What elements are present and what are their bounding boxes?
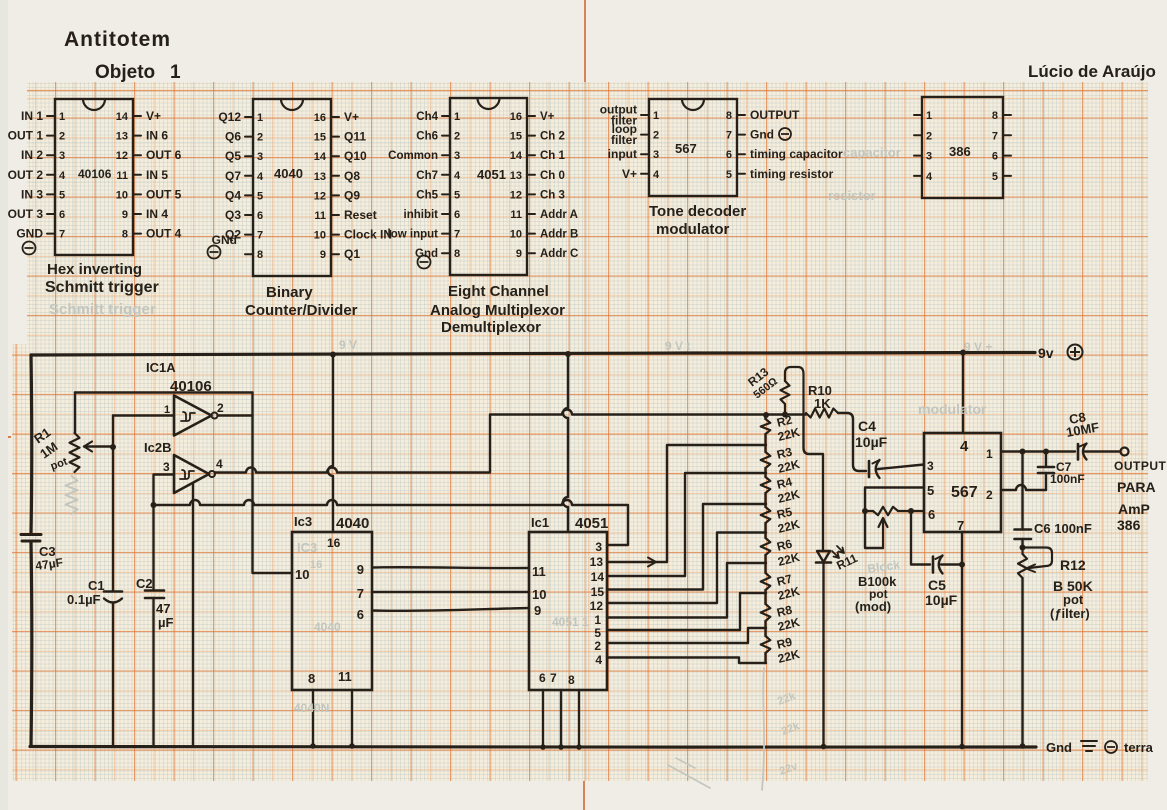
wire IC1 pin15 to ladder tap3 [607, 504, 766, 590]
svg-text:4: 4 [926, 171, 933, 183]
svg-text:1K: 1K [814, 396, 831, 411]
svg-text:2: 2 [217, 401, 224, 415]
wire ladder segment above R6 [764, 523, 766, 538]
svg-text:AmP: AmP [1118, 501, 1150, 517]
ghost caption schmitt trigger [49, 301, 156, 318]
wire R1 top lead [74, 393, 76, 434]
svg-text:10: 10 [295, 567, 309, 582]
svg-text:8: 8 [726, 110, 732, 122]
svg-text:timing resistor: timing resistor [750, 167, 834, 181]
svg-text:timing capacitor: timing capacitor [750, 147, 843, 161]
svg-text:100nF: 100nF [1050, 472, 1085, 486]
svg-text:V+: V+ [540, 111, 555, 123]
wire 9V power bus [31, 353, 1035, 356]
svg-text:4: 4 [59, 170, 66, 182]
svg-text:Binary: Binary [266, 284, 313, 301]
label IC2B [144, 440, 171, 455]
capacitor C3 47uF on left bus [21, 535, 41, 542]
label R4 22K [775, 475, 801, 506]
label R3 22K [775, 445, 801, 476]
wire inverter2 output pin4 net to ladder top [215, 410, 766, 473]
label IC3 4040 [294, 514, 369, 532]
svg-text:13: 13 [510, 170, 522, 182]
pin number 7 of U8 [957, 518, 964, 533]
svg-text:6: 6 [726, 149, 732, 161]
capacitor C6 100nF [1015, 452, 1032, 548]
svg-text:386: 386 [949, 144, 971, 159]
svg-text:6: 6 [59, 209, 65, 221]
resistor R3 22K [761, 452, 771, 468]
svg-text:OUT 3: OUT 3 [8, 207, 44, 221]
svg-text:4040N: 4040N [294, 701, 329, 715]
wire inverter1 input pin1 [113, 414, 174, 416]
wire IC3 pin8 to ground [310, 690, 316, 749]
svg-text:12: 12 [590, 599, 604, 613]
ground symbol under U1 GND pin [23, 242, 36, 255]
wire IC1 pin1 to ladder tap5 [607, 563, 766, 618]
svg-text:Ch 1: Ch 1 [540, 150, 566, 162]
svg-text:10µF: 10µF [925, 592, 958, 608]
wire ladder segment above R8 [764, 590, 766, 604]
wire R13 top loop over to R10 left [785, 367, 804, 414]
svg-text:6: 6 [928, 507, 935, 522]
svg-text:µF: µF [158, 615, 173, 630]
svg-text:8: 8 [257, 249, 263, 261]
resistor R11 100k pot [865, 507, 924, 515]
wire ladder segment above R3 [764, 434, 766, 452]
svg-text:Tone decoder: Tone decoder [649, 203, 746, 220]
svg-text:IN 6: IN 6 [146, 129, 168, 143]
pin number 4 of U8 [960, 438, 969, 455]
wire R1 wiper to node [84, 442, 113, 452]
svg-text:15: 15 [591, 585, 605, 599]
svg-text:4040: 4040 [314, 620, 341, 634]
svg-text:modulator: modulator [656, 221, 729, 238]
ghost text 4040 inside box [314, 620, 341, 634]
IC U3 pinout 4051 analog multiplexor [388, 98, 579, 275]
svg-text:6: 6 [992, 151, 998, 163]
pin number 6 of U8 [928, 507, 935, 522]
svg-text:Q3: Q3 [225, 208, 241, 222]
resistor R10 1K [806, 409, 838, 418]
label R10 1K [808, 383, 832, 411]
svg-text:2: 2 [653, 130, 659, 142]
svg-text:Ch 2: Ch 2 [540, 131, 565, 143]
svg-text:Gnd: Gnd [1046, 740, 1072, 755]
label R7 22K [775, 572, 801, 603]
svg-text:inhibit: inhibit [404, 209, 439, 221]
wire branch to LED [804, 414, 824, 551]
svg-text:Schmitt trigger: Schmitt trigger [45, 279, 159, 296]
node dot 9V at x333 [330, 352, 336, 358]
pin number 2 of IC1 [594, 639, 601, 653]
output terminal circle [1121, 448, 1129, 456]
node dot C2 junction [151, 502, 157, 508]
svg-text:GND: GND [16, 227, 43, 241]
svg-text:7: 7 [550, 671, 557, 685]
capacitor C7 100nF [1038, 452, 1054, 491]
pin number 3 of U8 [927, 459, 934, 473]
svg-text:15: 15 [314, 132, 326, 144]
svg-text:4: 4 [257, 171, 264, 183]
pin number 11 of IC1 [532, 564, 546, 579]
node dot C7 branch [1043, 449, 1049, 455]
label R8 22K [775, 603, 801, 634]
ghost block text near R11 [866, 558, 901, 576]
svg-text:Ic2B: Ic2B [144, 440, 171, 455]
svg-text:Ic3: Ic3 [294, 514, 312, 529]
svg-text:9 V: 9 V [339, 338, 357, 352]
svg-text:Q8: Q8 [344, 169, 360, 183]
svg-text:OUTPUT: OUTPUT [1114, 459, 1167, 473]
svg-text:5: 5 [927, 483, 934, 498]
svg-text:567: 567 [951, 484, 978, 501]
svg-text:11: 11 [510, 209, 522, 221]
label C3 47uF [34, 544, 63, 573]
svg-text:Eight Channel: Eight Channel [448, 283, 549, 300]
IC U6 4040 counter box [292, 532, 372, 690]
svg-text:12: 12 [314, 190, 326, 202]
svg-text:V+: V+ [344, 110, 359, 124]
ghost text modulator [918, 401, 987, 417]
svg-text:Q12: Q12 [218, 110, 241, 124]
svg-text:10: 10 [532, 587, 546, 602]
svg-text:IC1A: IC1A [146, 360, 176, 375]
wire pin3 net across to IC1 4051 pin3 [154, 500, 629, 545]
svg-text:V+: V+ [622, 167, 637, 181]
wire ladder segment above R2 [764, 415, 766, 420]
svg-text:11: 11 [314, 210, 326, 222]
label IC1A [146, 360, 176, 375]
resistor R13 560ohm [781, 381, 790, 415]
svg-text:1: 1 [454, 111, 460, 123]
wire IC1 pin6 to ground [540, 690, 546, 750]
svg-text:OUT 2: OUT 2 [8, 168, 44, 182]
label 9V plus [1038, 345, 1083, 362]
svg-text:IN 2: IN 2 [21, 148, 43, 162]
pin number 4 of IC2B [216, 457, 223, 471]
wire 567 pin2 to C7 [1001, 485, 1046, 490]
svg-text:OUTPUT: OUTPUT [750, 108, 800, 122]
svg-text:1: 1 [170, 62, 181, 83]
svg-text:Demultiplexor: Demultiplexor [441, 319, 541, 336]
wire IC3 pin11 to ground [349, 690, 355, 749]
svg-text:4040: 4040 [274, 166, 303, 181]
svg-text:40106: 40106 [170, 378, 212, 395]
svg-text:8: 8 [992, 110, 998, 122]
node dot C6 branch [1020, 449, 1026, 455]
resistor R1 1M pot [70, 433, 80, 472]
ghost diagonal strokes bottom [668, 758, 710, 788]
pin number 10 of IC3 [295, 567, 309, 582]
label C5 10uF [925, 577, 958, 608]
svg-text:filter: filter [611, 133, 637, 147]
svg-text:9 V +: 9 V + [964, 340, 992, 354]
svg-text:4051: 4051 [477, 167, 506, 182]
wire 567 pin7 to ground [959, 532, 965, 749]
svg-text:10: 10 [314, 230, 326, 242]
pin number 7 of IC1 bottom [550, 671, 557, 685]
ground symbol next to U4 Gnd label [779, 128, 791, 140]
IC U2 pinout 4040 binary counter [218, 99, 392, 276]
svg-text:3: 3 [926, 151, 932, 163]
wire IC3 pin7 to IC1 pin10 [372, 591, 529, 593]
label R11 B100k pot mod [834, 551, 897, 614]
svg-text:16: 16 [314, 112, 326, 124]
svg-text:11: 11 [532, 564, 546, 579]
label C6 100nF [1034, 521, 1092, 536]
svg-text:22k: 22k [776, 690, 798, 708]
svg-text:Schmitt trigger: Schmitt trigger [49, 301, 156, 318]
svg-text:5: 5 [59, 189, 65, 201]
svg-text:40106: 40106 [78, 167, 112, 181]
ghost squiggle below ladder [762, 668, 764, 790]
svg-text:1: 1 [257, 112, 263, 124]
ghost label 9V mid [665, 339, 690, 353]
svg-text:14: 14 [116, 111, 129, 123]
wire ground bus [30, 745, 1036, 749]
node dot ladder top [763, 412, 769, 418]
wire 9V to IC3 pin16 [328, 355, 333, 533]
svg-text:7: 7 [454, 229, 460, 241]
svg-text:8: 8 [308, 671, 315, 686]
node dot wiper junction [110, 444, 116, 450]
ghost text capacitor [843, 145, 901, 160]
svg-text:Ic1: Ic1 [531, 515, 549, 530]
wire inverter1 output [218, 414, 253, 416]
svg-text:2: 2 [986, 488, 993, 502]
svg-text:4040: 4040 [336, 515, 369, 532]
node dot R13 bottom [782, 412, 788, 418]
inverter U2B triangle [174, 455, 215, 493]
IC U7 4051 multiplexor box [529, 532, 607, 690]
svg-text:Ch 0: Ch 0 [540, 170, 565, 182]
wire 9V to 567 pin4 [962, 353, 964, 434]
svg-text:modulator: modulator [918, 401, 987, 417]
resistor R8 22K [761, 604, 771, 621]
wire 9V to IC1 pin16 [563, 354, 568, 532]
ghost erased zigzag under R1 [66, 476, 78, 514]
svg-text:4: 4 [595, 653, 602, 667]
svg-text:3: 3 [257, 151, 263, 163]
pin number 9 of IC1 [534, 603, 541, 618]
svg-text:Q6: Q6 [225, 130, 241, 144]
title Antitotem [64, 28, 171, 51]
svg-text:Addr C: Addr C [540, 248, 578, 260]
svg-text:10: 10 [116, 189, 128, 201]
pin number 15 of IC1 [591, 585, 605, 599]
pin number 7 of IC3 [357, 586, 364, 601]
svg-text:5: 5 [594, 626, 601, 640]
wire left vertical bus lower [29, 542, 33, 746]
svg-text:C6 100nF: C6 100nF [1034, 521, 1092, 536]
svg-text:16: 16 [310, 559, 322, 571]
pin number 6 of IC3 [357, 607, 364, 622]
svg-text:4: 4 [216, 457, 223, 471]
svg-text:1: 1 [653, 110, 659, 122]
svg-text:5: 5 [726, 169, 732, 181]
svg-text:13: 13 [590, 555, 604, 569]
svg-text:OUT 5: OUT 5 [146, 187, 182, 201]
resistor R6 22K [761, 538, 771, 555]
wire left vertical bus upper [29, 355, 33, 533]
pin number 11 of IC3 [338, 669, 352, 684]
resistor R12 50k pot [1018, 548, 1027, 579]
svg-text:3: 3 [59, 150, 65, 162]
pin number 3 of IC1 [595, 540, 602, 554]
wire C5 branch from pin6 node [911, 511, 930, 565]
capacitor C4 10uF polarized [869, 460, 924, 478]
svg-text:7: 7 [59, 229, 65, 241]
svg-text:Ch 3: Ch 3 [540, 189, 565, 201]
label C8 10MF [1065, 409, 1100, 440]
svg-text:4051 1: 4051 1 [552, 615, 589, 629]
wire R10 right to C4 [838, 413, 866, 471]
svg-text:16: 16 [510, 111, 522, 123]
svg-text:IC3: IC3 [297, 540, 317, 555]
svg-text:Gnd: Gnd [750, 128, 774, 142]
pin number 5 of U8 [927, 483, 934, 498]
svg-text:7: 7 [257, 230, 263, 242]
svg-text:C5: C5 [928, 577, 946, 593]
svg-text:Ch7: Ch7 [416, 170, 438, 182]
svg-text:pot: pot [1063, 592, 1084, 607]
svg-text:Q10: Q10 [344, 149, 367, 163]
svg-text:input: input [608, 147, 637, 161]
svg-text:8: 8 [122, 229, 128, 241]
svg-text:9: 9 [357, 562, 364, 577]
svg-text:6: 6 [454, 209, 460, 221]
svg-text:terra: terra [1124, 740, 1154, 755]
wire IC1 pin13 to ladder tap1 [607, 445, 766, 567]
capacitor C1 0.1uF polarized [104, 592, 122, 747]
resistor R4 22K [761, 477, 771, 493]
wire IC3 pin9 to IC1 pin11 [372, 566, 529, 569]
ghost 22k marks [776, 690, 802, 778]
svg-text:Ch6: Ch6 [416, 131, 438, 143]
label R6 22K [775, 537, 801, 569]
diode D1 LED indicator [816, 546, 844, 563]
IC U8 567 box [924, 433, 1001, 532]
pin number 4 of IC1 [595, 653, 602, 667]
ghost text 4051 inside box [552, 615, 589, 629]
svg-text:Common: Common [388, 150, 438, 162]
svg-text:Analog Multiplexor: Analog Multiplexor [430, 302, 565, 319]
ground symbol under U3 GND pin [418, 256, 431, 269]
svg-text:2: 2 [257, 132, 263, 144]
svg-text:8: 8 [454, 248, 460, 260]
svg-text:Q5: Q5 [225, 149, 241, 163]
label R1 1M pot [31, 425, 69, 473]
svg-text:capacitor: capacitor [843, 145, 901, 160]
wire IC1 pin7 to ground [558, 690, 564, 750]
svg-text:Clock IN: Clock IN [344, 228, 392, 242]
svg-text:47µF: 47µF [34, 555, 63, 573]
svg-text:4: 4 [454, 170, 461, 182]
label Gnd terra with earth and minus symbols [1046, 740, 1154, 755]
svg-text:3: 3 [927, 459, 934, 473]
wiper loop of R12 [1023, 548, 1053, 573]
label C1 0.1uF [67, 578, 105, 607]
pin number 2 of IC1A [217, 401, 224, 415]
svg-text:10µF: 10µF [855, 434, 888, 450]
capacitor C2 47uF [145, 505, 164, 746]
svg-text:1: 1 [926, 110, 932, 122]
svg-text:11: 11 [116, 170, 128, 182]
svg-text:Q7: Q7 [225, 169, 241, 183]
wiper arrow of R11 [879, 518, 888, 548]
inverter U1A triangle [174, 396, 218, 436]
wire ladder segment above R9 [764, 621, 766, 636]
svg-text:1: 1 [59, 111, 65, 123]
pin number 1 of IC1A [164, 404, 170, 416]
svg-text:(ƒilter): (ƒilter) [1050, 606, 1090, 621]
svg-text:13: 13 [116, 131, 128, 143]
svg-text:22v: 22v [778, 760, 800, 778]
svg-text:C4: C4 [858, 418, 876, 434]
svg-text:9: 9 [534, 603, 541, 618]
svg-text:5: 5 [257, 190, 263, 202]
svg-text:7: 7 [957, 518, 964, 533]
svg-text:12: 12 [116, 150, 128, 162]
pin number 5 of IC1 [594, 626, 601, 640]
pin number 16 of IC3 [327, 536, 341, 550]
svg-text:C1: C1 [88, 578, 105, 593]
svg-text:C2: C2 [136, 576, 153, 591]
pin number 8 of IC1 bottom [568, 673, 575, 687]
wire IC1 pin5 to ladder tap6 [607, 593, 766, 630]
wire R12 to ground [1020, 578, 1026, 749]
node dot C5 to pin7 [959, 562, 965, 568]
svg-text:Q1: Q1 [344, 247, 360, 261]
svg-text:Counter/Divider: Counter/Divider [245, 302, 358, 319]
pin number 3 of IC2B [163, 460, 170, 474]
svg-text:Q4: Q4 [225, 188, 241, 202]
svg-text:16: 16 [327, 536, 341, 550]
IC U4 pinout 567 tone decoder [600, 99, 843, 196]
pin number 2 of U8 [986, 488, 993, 502]
svg-text:IN 4: IN 4 [146, 207, 168, 221]
svg-text:6: 6 [539, 671, 546, 685]
wire IC1 pin8 to ground [576, 690, 582, 750]
svg-text:Addr A: Addr A [540, 209, 578, 221]
pin number 13 of IC1 [590, 555, 604, 569]
svg-text:7: 7 [726, 130, 732, 142]
wire feedback top from R1 to inverter output [75, 391, 253, 393]
svg-text:Objeto: Objeto [95, 62, 155, 83]
svg-text:2: 2 [59, 131, 65, 143]
svg-text:Ch5: Ch5 [416, 189, 438, 201]
svg-text:11: 11 [338, 669, 352, 684]
label R12 B50K pot filter [1050, 557, 1093, 621]
label R13 560 [745, 365, 780, 402]
svg-text:386: 386 [1117, 517, 1141, 533]
wire ladder segment above R4 [764, 468, 766, 477]
wire 567 pin5 loop [865, 488, 924, 549]
svg-text:10: 10 [510, 229, 522, 241]
svg-text:Lúcio de Araújo: Lúcio de Araújo [1028, 62, 1156, 81]
label C2 47uF [136, 576, 173, 630]
pin number 14 of IC1 [591, 570, 605, 584]
svg-text:(mod): (mod) [855, 599, 891, 614]
pin number 10 of IC1 [532, 587, 546, 602]
svg-text:47: 47 [156, 601, 170, 616]
svg-text:3: 3 [163, 460, 170, 474]
svg-text:5: 5 [992, 171, 998, 183]
svg-text:3: 3 [595, 540, 602, 554]
svg-text:2: 2 [926, 130, 932, 142]
wire 567 pin1 output net [1001, 450, 1075, 452]
